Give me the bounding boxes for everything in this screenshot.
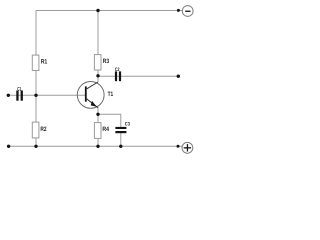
- node collector junction: [96, 74, 99, 77]
- node base junction: [34, 94, 37, 97]
- svg-text:R1: R1: [41, 58, 48, 65]
- terminal minus: [182, 6, 193, 17]
- capacitor C3: [115, 122, 130, 134]
- node R3 top junction: [96, 9, 99, 12]
- wire emitter vertical: [97, 108, 99, 147]
- wire collector vertical: [97, 11, 99, 83]
- svg-text:T1: T1: [108, 91, 114, 98]
- svg-text:R3: R3: [103, 58, 110, 65]
- wire left rail: [35, 11, 37, 147]
- svg-text:R4: R4: [102, 126, 109, 133]
- node input terminal: [7, 94, 10, 97]
- node R4 bottom junction: [96, 145, 99, 148]
- node bottom-left terminal: [7, 145, 10, 148]
- node emitter junction: [96, 113, 99, 116]
- wire bottom rail: [9, 145, 183, 147]
- node C3 bottom junction: [119, 145, 122, 148]
- resistor R3: [94, 55, 109, 70]
- transistor T1: [77, 82, 113, 109]
- node top-right junction: [177, 9, 180, 12]
- svg-text:R2: R2: [40, 126, 47, 133]
- wire emitter to C3: [98, 114, 121, 127]
- svg-text:C3: C3: [125, 122, 130, 128]
- wire collector to C2 and output: [98, 75, 178, 77]
- capacitor C2: [115, 67, 121, 81]
- wire top rail: [36, 10, 183, 12]
- node R2 bottom junction: [34, 145, 37, 148]
- capacitor C1: [16, 86, 23, 100]
- svg-text:C1: C1: [17, 86, 21, 92]
- resistor R2: [32, 122, 47, 138]
- node output terminal: [177, 75, 180, 78]
- svg-text:C2: C2: [115, 67, 120, 73]
- resistor R1: [32, 55, 47, 70]
- resistor R4: [94, 123, 109, 139]
- terminal plus: [182, 142, 193, 153]
- wire base (C1 to T1): [8, 94, 85, 96]
- node bottom-right junction: [177, 145, 180, 148]
- wire C3 to bottom rail: [120, 133, 122, 147]
